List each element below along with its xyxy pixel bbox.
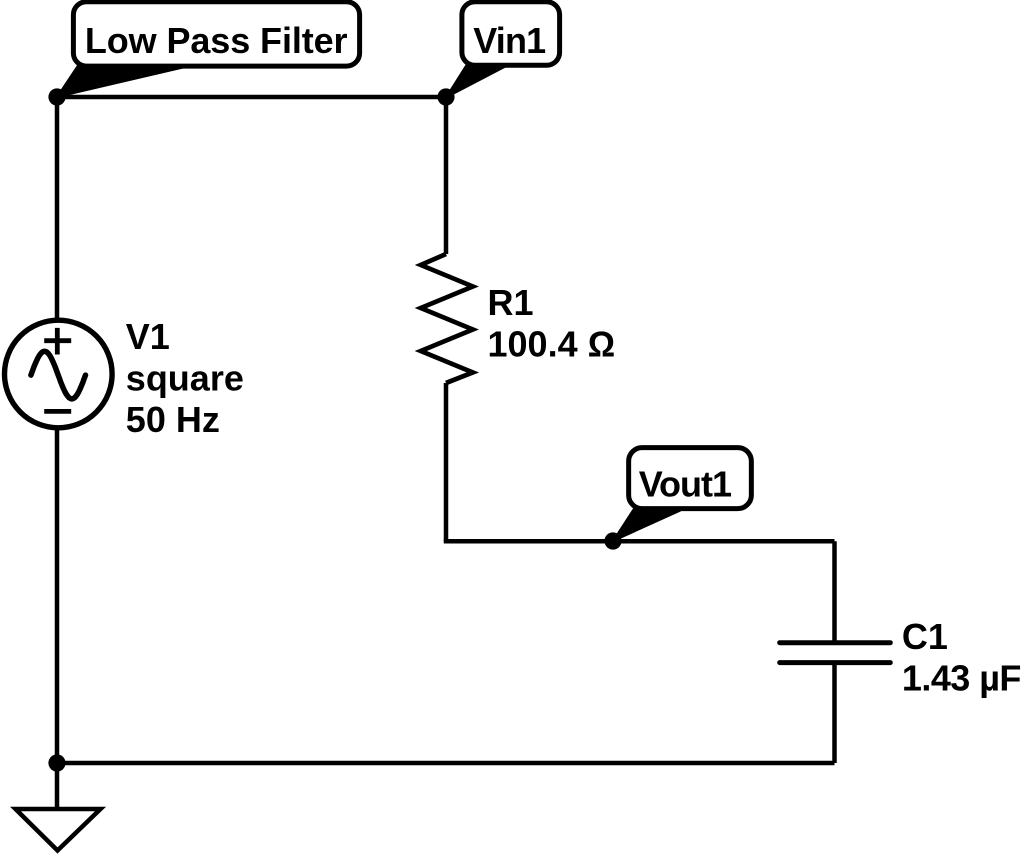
svg-text:50 Hz: 50 Hz xyxy=(126,399,220,440)
ground stem xyxy=(55,763,60,809)
svg-text:1.43 µF: 1.43 µF xyxy=(902,658,1021,699)
V1 sine waveform xyxy=(31,351,86,399)
wire left upper (top node to V1 top) xyxy=(55,97,60,320)
svg-text:V1: V1 xyxy=(126,316,170,357)
svg-text:100.4 Ω: 100.4 Ω xyxy=(488,324,616,365)
wire right upper (Vin node to R1 top) xyxy=(444,97,449,254)
wire top (node to node) xyxy=(57,95,446,100)
node top-left junction dot xyxy=(48,88,65,105)
ground triangle xyxy=(16,809,101,851)
callout Low Pass Filter: box xyxy=(73,2,359,66)
wire bottom horizontal xyxy=(57,761,835,766)
wire R1 bottom to middle corner xyxy=(444,383,449,541)
resistor R1 xyxy=(421,254,473,383)
callout Low Pass Filter: pointer triangle xyxy=(57,66,183,98)
callout Vin1: pointer triangle xyxy=(446,65,506,98)
wire right vertical lower (C1 bottom plate to bottom wire) xyxy=(832,663,837,763)
svg-text:Vin1: Vin1 xyxy=(473,20,546,61)
svg-text:square: square xyxy=(126,358,244,399)
node ground junction dot xyxy=(48,754,65,771)
V1 minus sign xyxy=(44,409,71,414)
svg-text:Vout1: Vout1 xyxy=(639,464,732,505)
capacitor C1 top plate xyxy=(780,640,891,645)
V1 plus sign xyxy=(44,328,71,355)
wire middle horizontal (corner to right corner) xyxy=(444,539,835,544)
wire right vertical upper (to C1 top plate) xyxy=(832,541,837,643)
wire left lower (V1 bottom to ground node) xyxy=(55,428,60,763)
voltage source V1 circle xyxy=(5,320,113,428)
callout Vout1: box xyxy=(629,448,752,509)
capacitor C1 bottom plate xyxy=(780,660,891,665)
node Vin1 junction dot xyxy=(437,88,454,105)
svg-text:Low Pass Filter: Low Pass Filter xyxy=(85,20,348,61)
svg-text:C1: C1 xyxy=(902,616,948,657)
callout Vin1: box xyxy=(462,2,560,66)
svg-text:R1: R1 xyxy=(488,282,534,323)
callout Vout1: pointer triangle xyxy=(613,510,681,542)
node Vout1 junction dot xyxy=(604,532,621,549)
